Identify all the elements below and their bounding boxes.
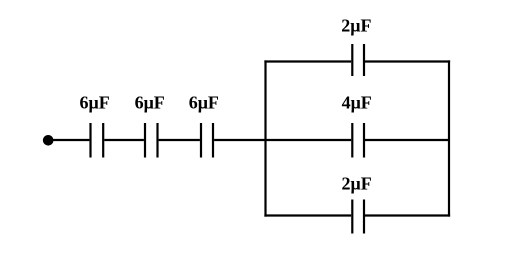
svg-text:2μF: 2μF xyxy=(341,16,371,36)
svg-text:4μF: 4μF xyxy=(342,93,372,113)
svg-text:2μF: 2μF xyxy=(341,174,371,194)
svg-text:6μF: 6μF xyxy=(79,93,109,113)
svg-text:6μF: 6μF xyxy=(135,93,165,113)
svg-text:6μF: 6μF xyxy=(189,93,219,113)
